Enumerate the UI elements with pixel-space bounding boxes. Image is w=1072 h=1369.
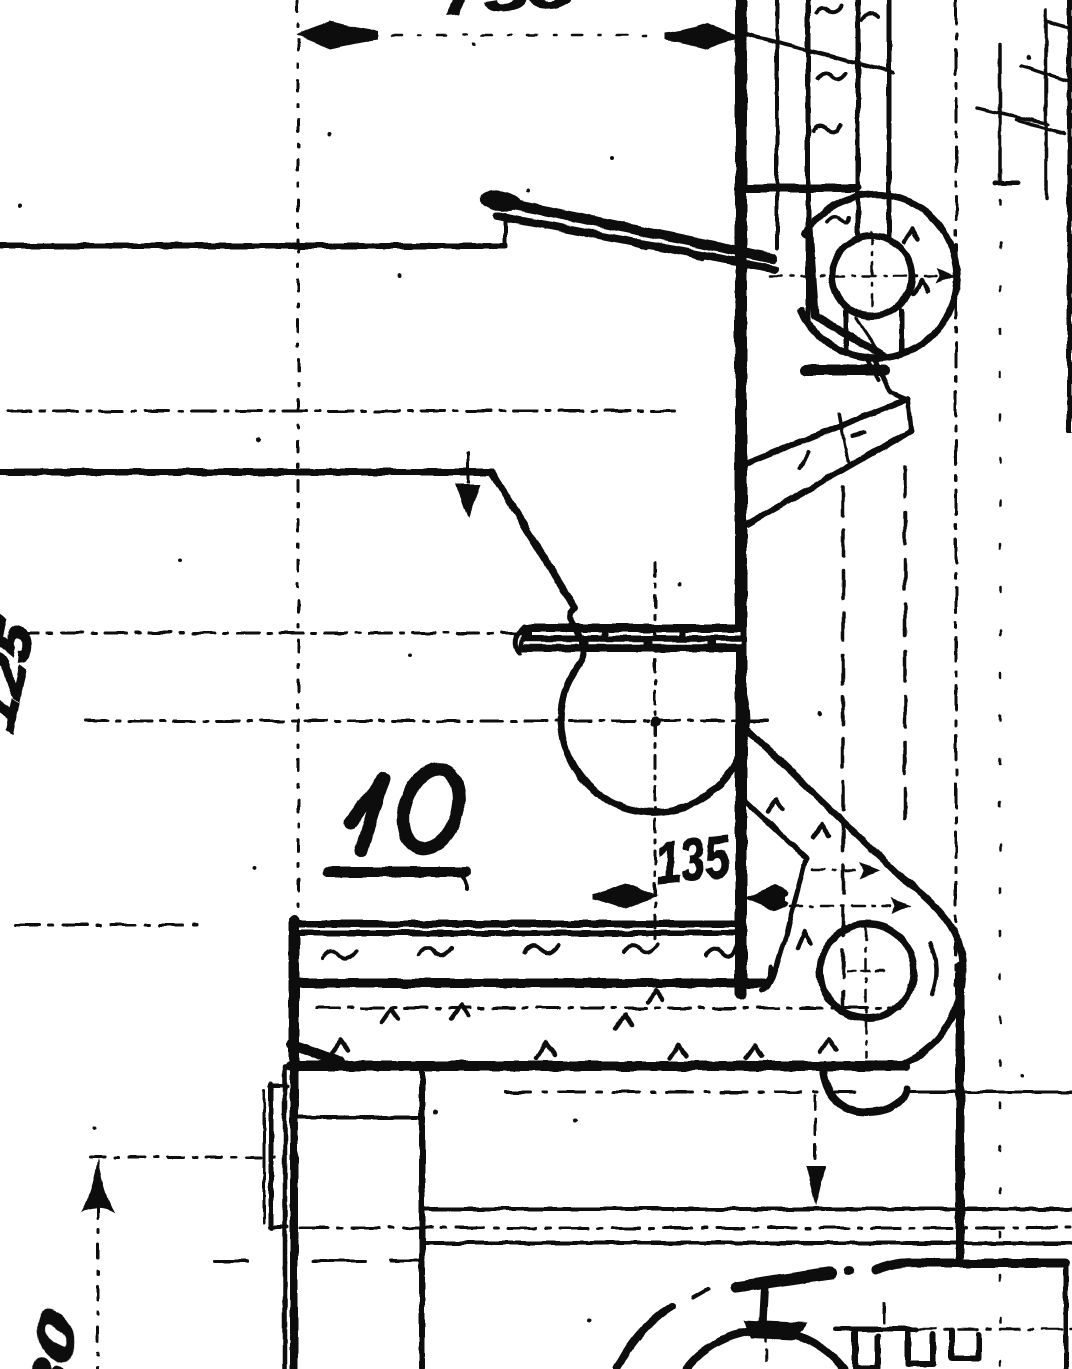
corner hatch 4 [1016,120,1064,134]
anchor center tick [883,1303,886,1322]
cavity squiggle 2 [813,125,840,131]
lower casing spiral [900,876,963,1063]
slab bottom edge [290,1061,906,1071]
wiggle joint [571,608,584,664]
detail number 10 underline [328,867,466,877]
funnel line [875,360,890,393]
leader line [737,32,893,72]
chute top edge [745,399,908,464]
grid end blob [995,181,1018,186]
floor line 1 [422,1207,1072,1211]
sill band seam 2 [524,642,742,645]
chute divider [839,414,848,462]
lower wall outer edge [283,1066,288,1369]
anchor tooth 1 [855,1330,878,1368]
flap hatch [563,227,702,259]
underline tail [462,874,467,888]
sill band left hook [516,626,524,653]
slab tick e [616,1015,632,1028]
collector bar [806,365,884,376]
sill band block [518,624,742,652]
slab mid line [300,979,764,988]
spout hatch tick 3 [798,931,811,948]
upper dash-dot level line [7,410,676,413]
valve stem [763,1287,765,1324]
flow centerline 1 [812,869,862,872]
dimension arrow left [296,21,378,49]
grid line x=1046 [1044,10,1048,198]
slab bottom step [292,1044,340,1062]
floor dashes left [214,1260,474,1263]
screed squiggle 2 [418,948,452,956]
axis line x=1000 dotted [999,200,1002,1369]
volute hatch tick 2 [913,280,928,294]
ledge block bottom [270,1225,287,1229]
corner hatch 3 [977,108,1048,124]
axis line x=956 [955,0,958,985]
level dashes y=925 [15,924,205,927]
spout hatch tick 2 [813,825,829,838]
roof line [0,243,505,249]
lower roller centerline vertical [865,928,868,1058]
funnel connector [893,394,907,400]
height arrow [81,1158,115,1213]
corner hatch 1 [1046,21,1072,29]
screed squiggle 4 [624,945,658,953]
flap upper edge [488,199,772,258]
chute right end [908,399,911,431]
sill corner diagonal [491,472,575,608]
right lower vertical [1064,1262,1069,1369]
centerline vertical x=298 [297,0,300,928]
axis line x=843 [841,487,845,1008]
big pipe outer arc [617,1306,672,1369]
small tick [694,1289,708,1297]
ledge block outer [269,1084,274,1228]
upper roller volute casing [801,194,957,358]
wall inner line 2 [806,0,811,320]
spout neck hatch [856,318,876,348]
chute dash [852,433,865,436]
level dashes y=1092 [505,1091,862,1094]
pipe centerline [765,1318,768,1369]
bulge center dot [650,717,660,727]
slab tick b [452,1005,468,1018]
level line y=633 [17,632,527,635]
handle dot [844,1266,854,1276]
dimension arrow right [665,23,741,49]
flow centerline 2 [790,905,890,908]
casing wall thick [956,966,965,1261]
slab tick c [332,1040,348,1052]
svg-text:135: 135 [652,822,734,896]
roof step [503,215,507,246]
slab axis dashes [317,1007,900,1010]
axis line x=1000 upper [998,44,1002,183]
axis line x=905 [903,467,907,830]
cavity squiggle 3 [827,216,849,223]
bulge centerline vertical [654,563,657,940]
chute tick [800,453,808,468]
anchor tooth 3 [952,1330,979,1358]
slab top edge [296,921,739,928]
slab tick g [648,990,663,1002]
upper roller circle [832,236,912,316]
spout lower [775,858,806,971]
flow arrowhead 1 [860,863,880,879]
downpipe right edge [887,0,892,236]
small down arrow stem [467,452,470,482]
drop arrow [806,1166,826,1206]
valve base [743,1320,808,1340]
level line y=1092 right [909,1091,1072,1094]
screed squiggle 1 [322,951,356,959]
bulge centerline horizontal [85,720,775,723]
slab tick h [746,1045,762,1058]
right border bar [1067,0,1072,433]
valve handle bar [737,1273,831,1287]
dim 135 arrow right [744,885,789,911]
flow arrowhead 2 [891,898,911,914]
floor line 2 [422,1241,1072,1245]
corner hatch 2 [1021,66,1072,82]
anchor tooth 2 [908,1330,933,1364]
height level dashes [90,1156,285,1159]
lower roller centerline horizontal [848,970,888,973]
spout neck right [900,310,905,354]
roller centerline vertical [871,232,874,320]
chute bottom edge [747,431,911,524]
wall joint line [295,1115,422,1119]
lower wall inner edge [419,1069,425,1369]
flap lower edge [497,216,775,269]
lower casing diagonal [741,723,900,876]
slab tick d [536,1042,555,1058]
anchor baseline [835,1327,916,1332]
ledge block top [270,1084,287,1088]
slab tick a [382,1009,398,1022]
drop axis dashes [814,1096,817,1160]
wall inner line 1 [775,0,779,248]
lower roller circle [820,924,914,1018]
bulge circle [561,664,747,812]
anchor baseline dashes [916,1328,1072,1331]
roller centerline horizontal [770,275,944,278]
spout neck left [844,310,849,354]
floor axis dashes [300,1227,1072,1230]
dimension line 735 dashes [392,34,660,37]
downpipe left edge [856,0,861,240]
slab tick i [820,1039,836,1052]
sill band seam 1 [532,633,740,636]
slab tick f [670,1045,686,1058]
top hatch squiggles [816,6,842,12]
spout hook [762,971,775,990]
cavity squiggle 1 [818,73,846,79]
big pipe inner arc [686,1330,844,1369]
base bar [876,1263,1066,1270]
volute hatch tick 1 [904,229,918,242]
dim 135 arrow left [592,883,658,909]
funnel line 2 [866,357,878,380]
sill top line [0,469,491,476]
spout upper [744,800,806,858]
casing inner arc [930,944,936,994]
detail number 10 digit 0 [394,762,469,856]
lintel tick [740,184,858,192]
spout hatch tick 1 [768,800,782,812]
slab mid hook [764,967,771,983]
screed squiggle 3 [524,945,558,953]
slab left edge [289,921,300,1062]
centerline arrowhead [936,268,957,284]
flap pivot blob [478,187,523,215]
bracket below volute [809,228,884,356]
small down arrow [455,484,481,519]
screed squiggle 5 [706,948,736,956]
wall outer edge [735,0,747,994]
detail number 10 digit 1 [350,778,384,851]
height arrow stem [97,1204,100,1369]
drip gutter [823,1069,907,1112]
